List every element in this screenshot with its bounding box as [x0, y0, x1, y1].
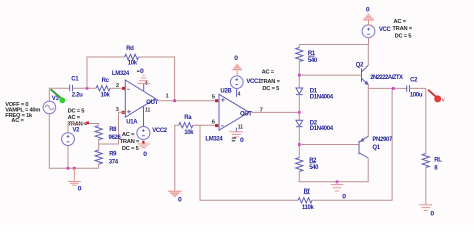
svg-text:AC =: AC = [262, 69, 275, 75]
wire to Q1 base [299, 144, 359, 146]
svg-text:DC = 5: DC = 5 [68, 109, 85, 115]
pin dot U2B pin 5 [215, 99, 218, 102]
refdes label R2 (underlined) [309, 158, 317, 164]
svg-text:0: 0 [140, 68, 144, 75]
svg-text:5: 5 [212, 94, 216, 100]
svg-text:10k: 10k [184, 130, 194, 136]
wire Ra left to arrow ground [175, 125, 179, 191]
U2B power pin 11 stub [235, 128, 237, 132]
svg-text:U1A: U1A [126, 119, 138, 125]
wire U1A pin 3 to R8/R9 node [99, 112, 126, 144]
svg-text:540: 540 [308, 58, 318, 64]
wire output row to C2 [368, 87, 406, 89]
svg-text:0: 0 [342, 194, 346, 201]
transistor Q1 [359, 136, 368, 158]
svg-text:U2B: U2B [220, 88, 232, 94]
resistor R8 [95, 126, 102, 140]
svg-text:V2: V2 [73, 128, 81, 134]
wire Q2 collector to rail [367, 45, 369, 66]
junction at Q2 base node [298, 74, 301, 77]
wire D1 to output node [298, 95, 300, 113]
wire Rc to U1A pin 2 [110, 87, 125, 89]
svg-text:TRAN =: TRAN = [260, 79, 280, 85]
svg-text:540: 540 [309, 165, 319, 171]
svg-text:9626: 9626 [109, 135, 122, 141]
svg-text:RL: RL [434, 158, 442, 164]
svg-text:Rd: Rd [126, 46, 134, 52]
wire R8 to R9 [98, 139, 100, 150]
wire U1A output to U2B pin 5 [156, 100, 220, 102]
svg-text:Q1: Q1 [372, 145, 380, 151]
diode D2 [296, 120, 303, 127]
resistor Rf [298, 198, 312, 203]
svg-text:C1: C1 [71, 77, 79, 83]
wire R2 bottom rail to Q1 collector [299, 158, 368, 182]
wire output node to D2 [298, 112, 300, 120]
svg-text:100u: 100u [410, 92, 423, 98]
svg-text:4: 4 [238, 91, 241, 97]
wire RL to ground [425, 167, 427, 204]
resistor R9 [95, 150, 102, 164]
svg-text:V: V [442, 98, 445, 103]
wire U2B output to diode chain [249, 111, 299, 113]
wire R1 to D1 [298, 61, 300, 88]
svg-text:R9: R9 [109, 152, 117, 158]
wire C1 to Rc [73, 87, 97, 89]
wire R9 bottom to ground rail [98, 164, 100, 168]
svg-text:11: 11 [238, 125, 244, 131]
red voltage probe marker V on output [429, 90, 445, 102]
junction ground stem/rail [73, 167, 76, 170]
svg-text:Q2: Q2 [356, 62, 364, 68]
svg-text:VCC: VCC [379, 27, 392, 33]
wire D2 to Q1 base node [298, 127, 300, 158]
voltage source V3 (sine) [43, 101, 56, 114]
junction V2/rail [67, 167, 70, 170]
wire Ra to U2B pin 6 [193, 124, 219, 126]
svg-text:10k: 10k [101, 93, 111, 99]
ground 0 under U2B [230, 132, 244, 137]
wire bottom ground rail to V3 [49, 114, 98, 169]
ground 0 under output rail [331, 182, 344, 191]
wire V2 bottom to rail [67, 146, 69, 169]
U1A power pin 11 stub to VCC2 [143, 106, 145, 126]
svg-text:10k: 10k [128, 60, 138, 66]
junction at Q1 base node [298, 143, 301, 146]
ground 0 under RL [419, 205, 432, 211]
svg-text:D1N4004: D1N4004 [310, 126, 334, 132]
svg-text:374: 374 [109, 160, 119, 166]
resistor Ra [179, 123, 193, 128]
junction at feedback tap [392, 87, 395, 90]
wire Rd feedback left riser [87, 57, 125, 88]
capacitor C2 [407, 85, 410, 91]
svg-text:0: 0 [366, 7, 370, 14]
op-amp U1A [125, 80, 158, 117]
voltage source VCC1 [231, 76, 244, 89]
U2B power pin 4 stub [236, 88, 238, 97]
svg-text:11: 11 [145, 108, 151, 114]
svg-text:C2: C2 [410, 77, 418, 83]
pin dot U2B pin 6 [215, 124, 218, 127]
svg-text:TRAN =: TRAN = [68, 122, 88, 128]
pin dot at V2 node [86, 122, 89, 125]
op-amp U2B [219, 94, 252, 130]
wire V2 top to R8 top [68, 124, 99, 133]
voltage source VCC [362, 25, 375, 38]
diode D1 [296, 88, 303, 95]
wire VCC bottom to rail [368, 38, 370, 45]
svg-text:0: 0 [178, 196, 182, 203]
wire V3 top to C1 left plate [49, 88, 69, 101]
up arrow ground 0 above VCC1 [232, 65, 242, 76]
svg-text:0: 0 [240, 137, 244, 144]
wire Rd to U1A output node [139, 57, 175, 101]
svg-text:TRAN =: TRAN = [120, 139, 140, 145]
ground 0 under VCC2 [138, 140, 150, 148]
svg-text:0: 0 [78, 186, 82, 193]
svg-text:DC = 5: DC = 5 [262, 86, 279, 92]
svg-text:DC = 5: DC = 5 [122, 146, 139, 152]
capacitor C1 [70, 85, 73, 91]
pin dot U1A pin 2 [122, 87, 125, 90]
svg-text:1: 1 [166, 94, 170, 100]
svg-text:2.2u: 2.2u [72, 93, 83, 99]
pin dot U1A pin 3 [122, 111, 125, 114]
svg-text:LM324: LM324 [112, 71, 130, 77]
resistor RL [422, 154, 429, 168]
wire Q2 emitter down to Q1 emitter [367, 85, 369, 137]
svg-text:0: 0 [234, 55, 238, 62]
svg-text:R8: R8 [109, 127, 117, 133]
svg-text:LM324: LM324 [205, 136, 223, 142]
green voltage probe marker on V3 node [51, 90, 65, 103]
svg-text:Ra: Ra [184, 115, 192, 121]
junction at amplifier output node [298, 111, 301, 114]
arrow ground 0 (striped) [168, 191, 181, 196]
wire top supply rail [299, 44, 368, 46]
resistor Rd [125, 54, 139, 59]
svg-text:AC =: AC = [68, 115, 81, 121]
resistor R1 [296, 45, 303, 62]
svg-text:8: 8 [434, 166, 438, 172]
refdes label R1 (underlined) [308, 51, 316, 57]
wire C2 to RL [410, 88, 426, 153]
ground 0 above U1A (mirrored) [137, 75, 150, 83]
up arrow ground 0 above VCC [363, 14, 374, 25]
svg-text:0: 0 [143, 151, 147, 158]
svg-text:AC =: AC = [11, 118, 24, 124]
resistor R2 [296, 158, 303, 172]
wire pin 6 riser to feedback rail [200, 125, 298, 200]
svg-text:AC =: AC = [394, 19, 407, 25]
refdes label Rf (underlined) [304, 189, 311, 195]
voltage source V2 [62, 133, 75, 146]
svg-text:2N2222A/ZTX: 2N2222A/ZTX [370, 75, 403, 81]
resistor Rc [96, 86, 110, 91]
svg-text:D1N4004: D1N4004 [310, 94, 334, 100]
wire to Q2 base [299, 74, 361, 76]
transistor Q2 [362, 65, 370, 85]
svg-text:DC = 5: DC = 5 [395, 34, 412, 40]
svg-text:AC =: AC = [122, 132, 135, 138]
net label 0 with tiny ground glyph (above U1A) [137, 68, 144, 75]
svg-text:110k: 110k [302, 205, 315, 211]
svg-text:0: 0 [430, 211, 434, 218]
junction at U1A output node [173, 99, 176, 102]
U1A power pin 4 stub [143, 84, 145, 92]
junction node C1/Rc/Rd [86, 87, 89, 90]
wire feedback rail to output riser [312, 88, 392, 200]
svg-text:6: 6 [212, 119, 216, 125]
voltage source VCC2 [137, 127, 150, 140]
ground 0 bottom left [68, 168, 81, 185]
svg-text:PN2907: PN2907 [372, 137, 393, 143]
svg-text:TRAN =: TRAN = [392, 26, 412, 32]
net label 0 with tiny ground glyph (under U2B) [232, 137, 244, 144]
svg-text:VCC2: VCC2 [152, 128, 168, 134]
svg-text:Rc: Rc [102, 78, 110, 84]
junction ground stem on rail [336, 180, 339, 183]
